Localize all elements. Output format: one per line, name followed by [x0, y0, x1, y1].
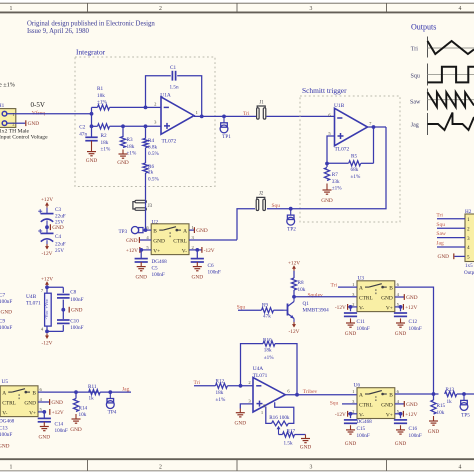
- sheet frame top: [0, 2, 474, 4]
- junction: [432, 392, 436, 396]
- resistor R12: [215, 383, 227, 388]
- svg-text:GND: GND: [126, 238, 138, 244]
- wire Tri to R12: [194, 385, 215, 387]
- svg-text:C3: C3: [55, 207, 61, 213]
- junction: [121, 124, 125, 128]
- wire input node vertical: [91, 107, 93, 126]
- svg-text:3: 3: [310, 465, 313, 471]
- svg-text:CTRL: CTRL: [173, 239, 187, 245]
- svg-text:B: B: [153, 229, 157, 235]
- svg-text:R9: R9: [262, 303, 268, 309]
- svg-text:J2: J2: [259, 192, 264, 197]
- junction: [325, 162, 329, 166]
- svg-text:R4: R4: [148, 138, 154, 144]
- waveform tri: [428, 41, 474, 54]
- svg-text:GND: GND: [117, 160, 129, 166]
- svg-text:GND: GND: [395, 441, 407, 447]
- svg-text:GND: GND: [71, 308, 83, 314]
- svg-text:+12V: +12V: [405, 305, 417, 311]
- junction: [200, 115, 204, 119]
- ground U4A pin3: [239, 409, 241, 413]
- svg-text:1.5n: 1.5n: [170, 85, 179, 91]
- svg-text:-12V: -12V: [42, 341, 53, 347]
- gnd flag H1 pin2: [16, 122, 25, 124]
- wire U2 CTRL to squ: [189, 239, 237, 241]
- svg-text:DG468: DG468: [357, 419, 373, 425]
- ground below C11: [350, 318, 352, 323]
- junction: [74, 390, 78, 394]
- wire J3 to U2: [145, 200, 147, 205]
- svg-text:R12: R12: [216, 379, 225, 385]
- svg-text:1.5k: 1.5k: [284, 440, 293, 446]
- op-amp U1B: [335, 108, 368, 145]
- svg-text:C4: C4: [55, 234, 61, 240]
- svg-text:V-: V-: [359, 412, 364, 418]
- junction: [90, 124, 94, 128]
- svg-text:25V: 25V: [55, 248, 64, 254]
- svg-text:±1%: ±1%: [332, 185, 342, 191]
- svg-text:1: 1: [10, 465, 13, 471]
- junction: [45, 225, 49, 229]
- svg-text:U1B: U1B: [334, 103, 345, 109]
- power flag +12V U6: [395, 413, 401, 415]
- svg-text:100nF: 100nF: [0, 325, 12, 331]
- wire C8 to C10: [62, 300, 64, 320]
- gnd flag C3 C4: [49, 224, 51, 230]
- svg-text:DG468: DG468: [0, 419, 15, 425]
- svg-text:±1%: ±1%: [264, 355, 274, 361]
- svg-text:10k: 10k: [437, 410, 445, 416]
- capacitor C14: [43, 412, 45, 418]
- svg-text:e ±1%: e ±1%: [0, 82, 15, 89]
- svg-text:J3: J3: [148, 204, 153, 209]
- wire H2 pin2: [437, 227, 465, 229]
- svg-text:GND: GND: [196, 228, 208, 234]
- svg-text:+12V: +12V: [41, 197, 53, 203]
- svg-text:V-: V-: [359, 306, 364, 312]
- ground below R15: [433, 416, 435, 421]
- svg-text:3: 3: [310, 6, 313, 12]
- capacitor C10: [57, 319, 70, 321]
- capacitor C3 polarized: [41, 213, 54, 215]
- op-amp U1A: [161, 97, 194, 134]
- svg-text:V+: V+: [386, 412, 393, 418]
- power flag +12V U5: [38, 411, 44, 413]
- svg-text:GND: GND: [70, 427, 82, 433]
- svg-text:Squ: Squ: [330, 401, 339, 407]
- wire H2 pin4: [437, 246, 465, 248]
- svg-text:GND: GND: [438, 254, 450, 260]
- svg-text:Outputs: Outputs: [411, 23, 436, 32]
- svg-text:22uF: 22uF: [55, 213, 66, 219]
- power -12V Q1: [293, 322, 295, 327]
- wire U4B decoupling bottom: [62, 325, 64, 331]
- svg-text:±1%: ±1%: [216, 397, 226, 403]
- resistor R6: [143, 163, 148, 173]
- svg-text:GND: GND: [381, 403, 393, 409]
- svg-text:GND: GND: [345, 331, 357, 337]
- svg-text:TL072: TL072: [162, 138, 177, 144]
- svg-text:GND: GND: [345, 441, 357, 447]
- junction: [349, 305, 353, 309]
- svg-text:18k: 18k: [97, 93, 105, 99]
- junction: [222, 115, 226, 119]
- resistor R10 feedback: [241, 344, 264, 386]
- svg-text:V+: V+: [29, 411, 36, 417]
- waveform saw axis: [427, 89, 429, 111]
- resistor R9: [262, 308, 274, 313]
- svg-text:C5: C5: [152, 265, 158, 271]
- svg-text:-12V: -12V: [335, 412, 346, 418]
- gnd flag U2 pin1: [189, 229, 194, 231]
- wire U5 to R11: [45, 391, 98, 393]
- svg-text:GND: GND: [52, 225, 64, 231]
- junction: [399, 412, 403, 416]
- junction: [289, 207, 293, 211]
- junction: [45, 285, 49, 289]
- wire H2 pin1: [437, 218, 465, 220]
- gnd flag U2 pin4: [139, 239, 151, 241]
- svg-text:Squ: Squ: [272, 203, 281, 209]
- svg-text:Squlev: Squlev: [308, 293, 324, 299]
- svg-text:MMBT3904: MMBT3904: [303, 308, 330, 314]
- power flag -12V U6: [348, 413, 357, 415]
- svg-text:H2: H2: [465, 209, 472, 215]
- wire to J1: [224, 115, 256, 117]
- svg-text:GND: GND: [381, 296, 393, 302]
- svg-text:R2: R2: [101, 133, 107, 139]
- test point TP4: [109, 392, 111, 398]
- wire U1A output: [194, 115, 224, 117]
- connector H1: [0, 109, 16, 128]
- svg-text:GND: GND: [28, 121, 40, 127]
- wire R4 to R6: [145, 148, 147, 163]
- wire U1A pin2: [146, 106, 162, 108]
- svg-text:C11: C11: [357, 319, 366, 325]
- svg-text:4: 4: [459, 465, 462, 471]
- wire Squ to R9: [238, 309, 262, 311]
- svg-text:Jag: Jag: [436, 241, 444, 247]
- svg-text:R5: R5: [351, 153, 357, 159]
- svg-text:B: B: [389, 393, 393, 399]
- svg-text:2: 2: [159, 465, 162, 471]
- ground below C6: [196, 262, 198, 267]
- svg-text:100nF: 100nF: [152, 272, 165, 278]
- svg-text:B: B: [389, 286, 393, 292]
- svg-text:Squ: Squ: [411, 74, 420, 80]
- resistor R17: [279, 434, 283, 436]
- svg-text:+12V: +12V: [41, 276, 53, 282]
- svg-text:U4B: U4B: [26, 294, 37, 300]
- svg-text:U1A: U1A: [160, 92, 171, 98]
- svg-text:Jag: Jag: [411, 122, 419, 128]
- junction: [292, 295, 296, 299]
- svg-text:Vfreq: Vfreq: [32, 109, 45, 116]
- wire U3 B to saw rail: [395, 287, 434, 394]
- svg-text:C2: C2: [79, 124, 85, 130]
- svg-text:100nF: 100nF: [409, 433, 422, 439]
- junction: [45, 330, 49, 334]
- svg-text:R1: R1: [97, 86, 103, 92]
- svg-text:Input Control Voltage: Input Control Voltage: [0, 135, 48, 141]
- waveform squ axis: [427, 64, 429, 86]
- svg-text:18k: 18k: [264, 348, 272, 354]
- svg-text:±1%: ±1%: [97, 99, 107, 105]
- svg-text:-12V: -12V: [42, 251, 53, 257]
- svg-text:A: A: [359, 286, 363, 292]
- svg-text:18k: 18k: [127, 144, 135, 150]
- wire R11 to TP4: [100, 391, 131, 393]
- svg-text:GND: GND: [39, 435, 51, 441]
- svg-text:U4A: U4A: [253, 366, 264, 372]
- svg-text:10k: 10k: [298, 287, 306, 293]
- svg-text:-12V: -12V: [204, 248, 215, 254]
- junction: [195, 248, 199, 252]
- svg-text:V-: V-: [2, 411, 7, 417]
- svg-text:GND: GND: [406, 402, 418, 408]
- junction: [144, 106, 148, 110]
- svg-text:0.5%: 0.5%: [148, 151, 159, 157]
- svg-text:R11: R11: [88, 384, 97, 390]
- svg-text:C16: C16: [409, 426, 418, 432]
- svg-text:0-5V: 0-5V: [31, 101, 45, 109]
- svg-text:±1%: ±1%: [351, 174, 361, 180]
- svg-text:0.5%: 0.5%: [148, 177, 159, 183]
- gnd flag U6 pin4: [395, 403, 405, 405]
- svg-text:GND: GND: [153, 239, 165, 245]
- svg-text:C8: C8: [70, 290, 76, 296]
- svg-text:22uF: 22uF: [55, 241, 66, 247]
- svg-text:B: B: [32, 391, 36, 397]
- wire R1 row: [92, 106, 98, 108]
- svg-text:GND: GND: [235, 421, 247, 427]
- svg-text:4: 4: [459, 6, 462, 12]
- svg-text:C13: C13: [0, 425, 8, 431]
- capacitor C16: [400, 414, 402, 418]
- svg-text:100nF: 100nF: [55, 428, 68, 434]
- svg-text:Schmitt trigger: Schmitt trigger: [302, 86, 347, 95]
- resistor R2: [98, 124, 110, 129]
- svg-text:68k: 68k: [351, 167, 359, 173]
- wire U1B pin5 feedback: [327, 136, 335, 164]
- capacitor C12: [400, 307, 402, 311]
- svg-text:GND: GND: [1, 310, 13, 316]
- ground below C5: [140, 262, 142, 267]
- resistor R14: [75, 392, 77, 398]
- svg-text:GND: GND: [24, 401, 36, 407]
- svg-text:2: 2: [159, 6, 162, 12]
- junction: [61, 308, 65, 312]
- svg-text:GND: GND: [406, 295, 418, 301]
- svg-text:Tri: Tri: [411, 47, 418, 53]
- svg-text:100nF: 100nF: [357, 433, 370, 439]
- svg-text:Outp: Outp: [464, 270, 474, 276]
- capacitor C4 polarized: [41, 232, 54, 234]
- resistor R7: [326, 163, 328, 167]
- svg-text:C7: C7: [0, 292, 5, 298]
- ground below C15: [350, 425, 352, 430]
- svg-text:TL071: TL071: [26, 301, 41, 307]
- svg-text:+12V: +12V: [126, 248, 138, 254]
- junction: [372, 125, 376, 129]
- svg-text:GND: GND: [51, 400, 63, 406]
- waveform saw: [428, 92, 474, 107]
- svg-text:R10: R10: [263, 337, 272, 343]
- svg-text:Saw: Saw: [436, 231, 446, 237]
- junction: [295, 393, 299, 397]
- junction: [144, 228, 148, 232]
- svg-text:GND: GND: [0, 444, 10, 450]
- jumper J2: [256, 199, 259, 210]
- resistor R5: [327, 162, 349, 164]
- svg-text:18k: 18k: [216, 390, 224, 396]
- svg-text:GND: GND: [300, 444, 312, 450]
- svg-text:V+: V+: [153, 249, 160, 255]
- jumper J3: [135, 200, 146, 203]
- ground below R3: [122, 150, 124, 155]
- resistor R1: [98, 105, 110, 110]
- svg-text:C6: C6: [208, 263, 214, 269]
- power flag +12V U3: [395, 306, 401, 308]
- svg-text:CTRL: CTRL: [2, 401, 16, 407]
- svg-text:TP5: TP5: [461, 413, 470, 419]
- svg-text:A: A: [359, 393, 363, 399]
- wire Squlev to U3 CTRL: [294, 296, 357, 298]
- svg-text:2k: 2k: [148, 169, 154, 175]
- junction: [239, 384, 243, 388]
- capacitor C8: [57, 294, 70, 296]
- capacitor C6: [196, 250, 198, 259]
- svg-text:C9: C9: [0, 318, 5, 324]
- svg-text:GND: GND: [321, 198, 333, 204]
- svg-text:1k: 1k: [447, 399, 453, 405]
- svg-text:100nF: 100nF: [357, 326, 370, 332]
- svg-text:1: 1: [10, 6, 13, 12]
- wire squ feedback down: [267, 127, 386, 209]
- wire U4A pin3 to gnd: [240, 404, 253, 409]
- wire J1 to U1B: [267, 115, 335, 117]
- svg-text:-12V: -12V: [335, 305, 346, 311]
- gnd flag U5 pin4: [38, 401, 50, 403]
- ground below C14: [43, 422, 45, 427]
- svg-text:Tribev: Tribev: [303, 389, 318, 395]
- svg-text:Tri: Tri: [331, 283, 338, 289]
- connector H2: [465, 214, 474, 262]
- power flag -12V U2 pin2: [189, 249, 202, 251]
- svg-text:TL072: TL072: [335, 146, 350, 152]
- ground below C12: [400, 318, 402, 323]
- svg-text:CTRL: CTRL: [359, 296, 373, 302]
- transistor Q1 MMBT3904: [287, 304, 289, 316]
- junction: [108, 390, 112, 394]
- capacitor C11: [350, 307, 352, 311]
- wire H1 pin1 to integrator input: [16, 113, 92, 115]
- ground below C2: [91, 141, 93, 152]
- wire U5 B output: [38, 391, 45, 393]
- resistor R8: [293, 271, 295, 278]
- svg-text:R16 100k: R16 100k: [269, 415, 290, 421]
- sheet frame bottom: [0, 458, 474, 460]
- waveform jag axis: [427, 113, 429, 135]
- power flag -12V U3: [348, 306, 357, 308]
- junction: [399, 305, 403, 309]
- svg-text:C1: C1: [170, 65, 176, 71]
- svg-text:+Vcc: +Vcc: [44, 299, 49, 309]
- ground below C16: [400, 425, 402, 430]
- wire H2 pin3: [437, 237, 465, 239]
- svg-text:33k: 33k: [332, 179, 340, 185]
- jumper J1: [257, 108, 260, 119]
- svg-text:TL071: TL071: [253, 373, 268, 379]
- capacitor C5: [140, 250, 142, 259]
- svg-text:H1: H1: [0, 103, 5, 109]
- wire U4A output: [285, 394, 357, 396]
- wire U2 B pin: [146, 229, 152, 231]
- ground R17: [305, 435, 307, 439]
- junction: [462, 392, 466, 396]
- svg-text:R3: R3: [127, 137, 133, 143]
- svg-text:100nF: 100nF: [0, 432, 12, 438]
- svg-text:100nF: 100nF: [0, 299, 12, 305]
- resistor R13: [445, 391, 457, 396]
- svg-text:TP4: TP4: [108, 409, 117, 415]
- svg-text:100nF: 100nF: [70, 297, 83, 303]
- svg-text:C10: C10: [70, 318, 79, 324]
- svg-text:100nF: 100nF: [70, 325, 83, 331]
- svg-text:GND: GND: [135, 275, 147, 281]
- junction: [139, 248, 143, 252]
- wire squ row left: [237, 209, 255, 240]
- svg-text:R14: R14: [79, 405, 88, 411]
- svg-text:1x5 T: 1x5 T: [465, 263, 474, 269]
- svg-text:6.8k: 6.8k: [148, 145, 157, 151]
- svg-text:18k: 18k: [101, 140, 109, 146]
- resistor R11: [89, 390, 100, 395]
- ground below R14: [75, 414, 77, 419]
- integrator group box: [75, 57, 215, 187]
- svg-text:100nF: 100nF: [208, 269, 221, 275]
- svg-text:±1%: ±1%: [101, 146, 111, 152]
- svg-text:R15: R15: [437, 403, 446, 409]
- wire Tri to U3 pin1: [338, 286, 357, 288]
- waveform jag: [428, 113, 474, 131]
- svg-text:GND: GND: [428, 429, 440, 435]
- junction: [144, 124, 148, 128]
- svg-text:TP1: TP1: [222, 134, 231, 140]
- svg-text:C15: C15: [357, 426, 366, 432]
- waveform tri axis: [427, 37, 429, 58]
- power -12V below C4: [46, 244, 48, 249]
- svg-text:C14: C14: [55, 421, 64, 427]
- svg-text:-Vcc: -Vcc: [44, 311, 49, 320]
- capacitor C1 feedback: [146, 76, 171, 108]
- svg-text:100nF: 100nF: [409, 326, 422, 332]
- power -12V U4B: [46, 333, 48, 338]
- wire R2 row: [92, 125, 98, 127]
- svg-text:-12V: -12V: [289, 329, 300, 335]
- svg-text:47k: 47k: [263, 314, 271, 320]
- svg-text:Issue 9, April 26, 1980: Issue 9, April 26, 1980: [27, 28, 90, 35]
- capacitor C2: [91, 126, 93, 136]
- svg-text:+12V: +12V: [52, 410, 64, 416]
- svg-text:R8: R8: [298, 280, 304, 286]
- power flag +12V U2 pin5: [140, 249, 151, 251]
- svg-text:+12V: +12V: [405, 412, 417, 418]
- svg-text:V+: V+: [386, 306, 393, 312]
- svg-text:1k: 1k: [89, 396, 95, 402]
- svg-text:C12: C12: [409, 319, 418, 325]
- svg-text:V-: V-: [182, 249, 187, 255]
